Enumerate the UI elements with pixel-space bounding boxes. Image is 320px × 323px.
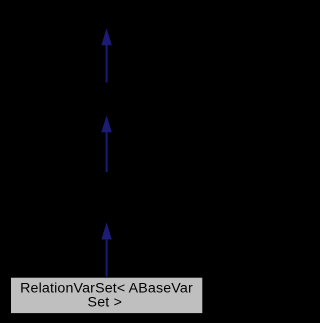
node box RelationVarSet< ABaseVarSet > [11, 277, 203, 313]
svg-text:Set >: Set > [88, 295, 123, 311]
inheritance arrow 1 (top) [102, 30, 111, 83]
inheritance arrow 2 (middle) [102, 117, 111, 172]
inheritance arrow 3 (bottom) [102, 224, 111, 277]
